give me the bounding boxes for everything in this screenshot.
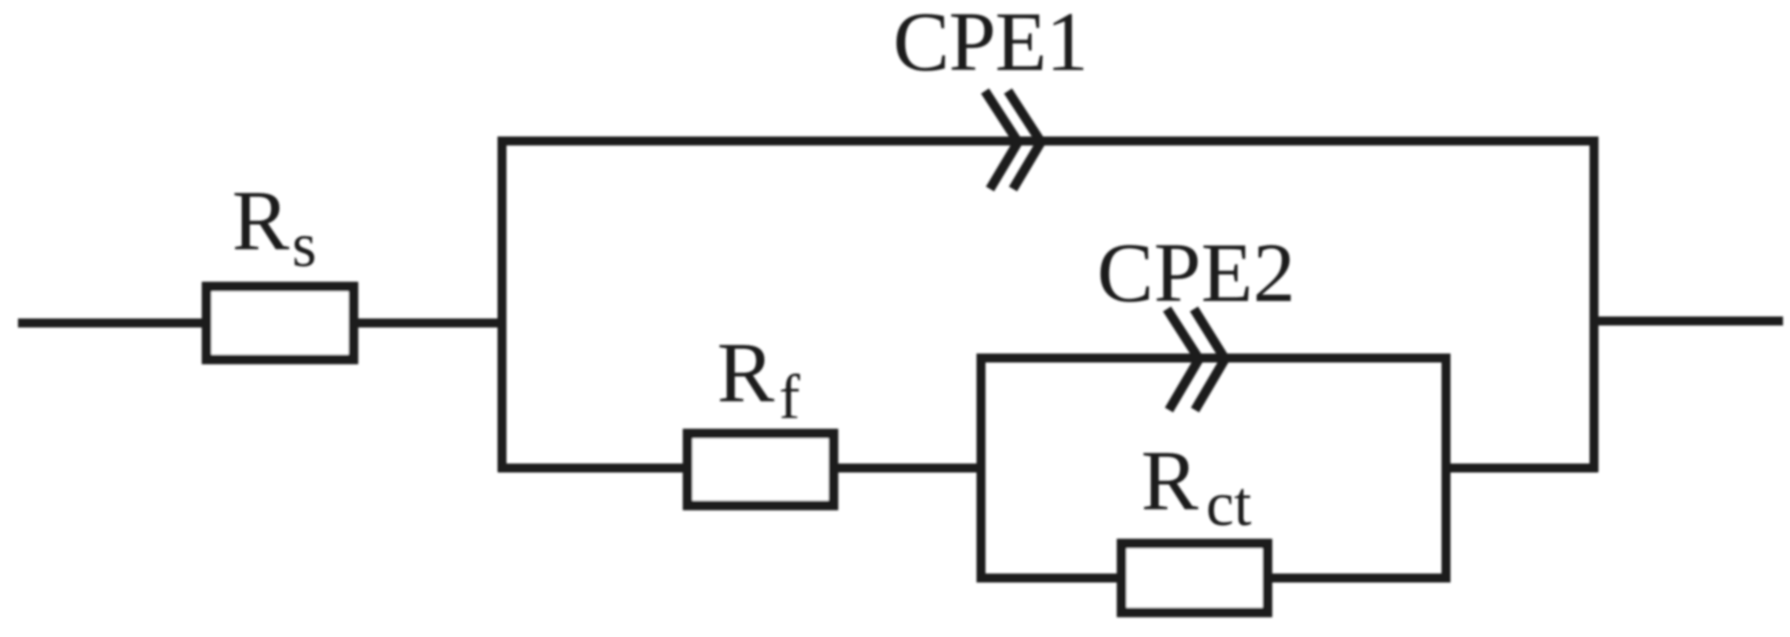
svg-text:ct: ct [1206,469,1252,539]
wire Rf to parallel block [838,464,985,473]
wire parallel block to right junction [1446,464,1598,473]
svg-text:CPE1: CPE1 [893,0,1087,89]
svg-text:f: f [779,362,800,432]
svg-text:CPE2: CPE2 [1097,226,1295,320]
svg-text:R: R [717,324,775,420]
resistor Rf [688,434,834,506]
resistor Rct [1122,544,1268,613]
svg-text:s: s [292,210,317,280]
wire input lead [18,319,207,328]
wire outer loop: left vertical, top branch, right vertical [502,141,1594,472]
CPE2 symbol [1167,309,1225,410]
wire Rs to left junction [358,319,506,328]
resistor Rs [207,287,354,360]
svg-text:R: R [232,172,290,268]
wire output lead [1594,317,1783,326]
wire bottom branch to Rf [498,464,687,473]
CPE1 symbol [985,91,1041,189]
svg-text:R: R [1141,432,1199,528]
wire parallel loop CPE2 / Rct [981,358,1446,578]
